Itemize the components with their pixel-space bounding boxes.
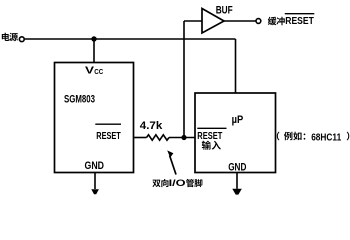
pin label RESET input (active low): [197, 127, 226, 129]
svg-text:RESET: RESET: [285, 16, 314, 27]
svg-text:GND: GND: [228, 161, 246, 173]
svg-text:RESET: RESET: [197, 131, 222, 142]
svg-text:4.7k: 4.7k: [140, 120, 163, 132]
wire: up to buffer input: [183, 21, 185, 138]
junction: VCC tap: [91, 36, 96, 41]
svg-text:I/O: I/O: [169, 177, 186, 188]
ground (uP): [232, 189, 242, 195]
IC U1 SGM803 box: [55, 63, 134, 173]
wire: power rail: [25, 38, 236, 40]
junction: buffer tap: [181, 135, 186, 140]
wire: resistor to uP: [169, 137, 195, 139]
svg-text:CC: CC: [94, 67, 103, 76]
power input terminal: [19, 37, 24, 42]
output terminal: [256, 19, 261, 24]
svg-text:BUF: BUF: [216, 4, 233, 16]
net label 缓冲RESET (buffered reset): [268, 14, 315, 28]
annotation 双向I/O管脚 (bidirectional I/O pin): [152, 177, 202, 188]
wire: RESET net: [134, 137, 147, 139]
wire: uP GND stub: [236, 173, 238, 189]
IC U3 microprocessor box: [195, 93, 276, 173]
wire: SGM803 GND stub: [94, 173, 96, 190]
wire: to SGM803 VCC: [93, 39, 95, 63]
callout arrow: [170, 156, 176, 175]
pin label RESET (active low): [95, 123, 121, 125]
net label 电源 (power): [2, 33, 18, 41]
wire: to uP top: [235, 39, 237, 93]
annotation (e.g. 68HC11): [277, 131, 350, 143]
svg-text:GND: GND: [85, 160, 105, 172]
svg-text:RESET: RESET: [96, 130, 121, 142]
wire: buffer output: [224, 20, 256, 22]
pin label 输入 (input): [202, 141, 221, 150]
buffer U2 BUF: [202, 9, 224, 34]
svg-text:SGM803: SGM803: [64, 94, 95, 106]
svg-text:68HC11: 68HC11: [311, 131, 341, 143]
svg-text:V: V: [85, 65, 94, 76]
svg-text:µP: µP: [232, 114, 244, 126]
wire: buffer input: [184, 20, 202, 22]
resistor R1 4.7k: [147, 135, 169, 140]
ground (SGM803): [91, 189, 99, 194]
